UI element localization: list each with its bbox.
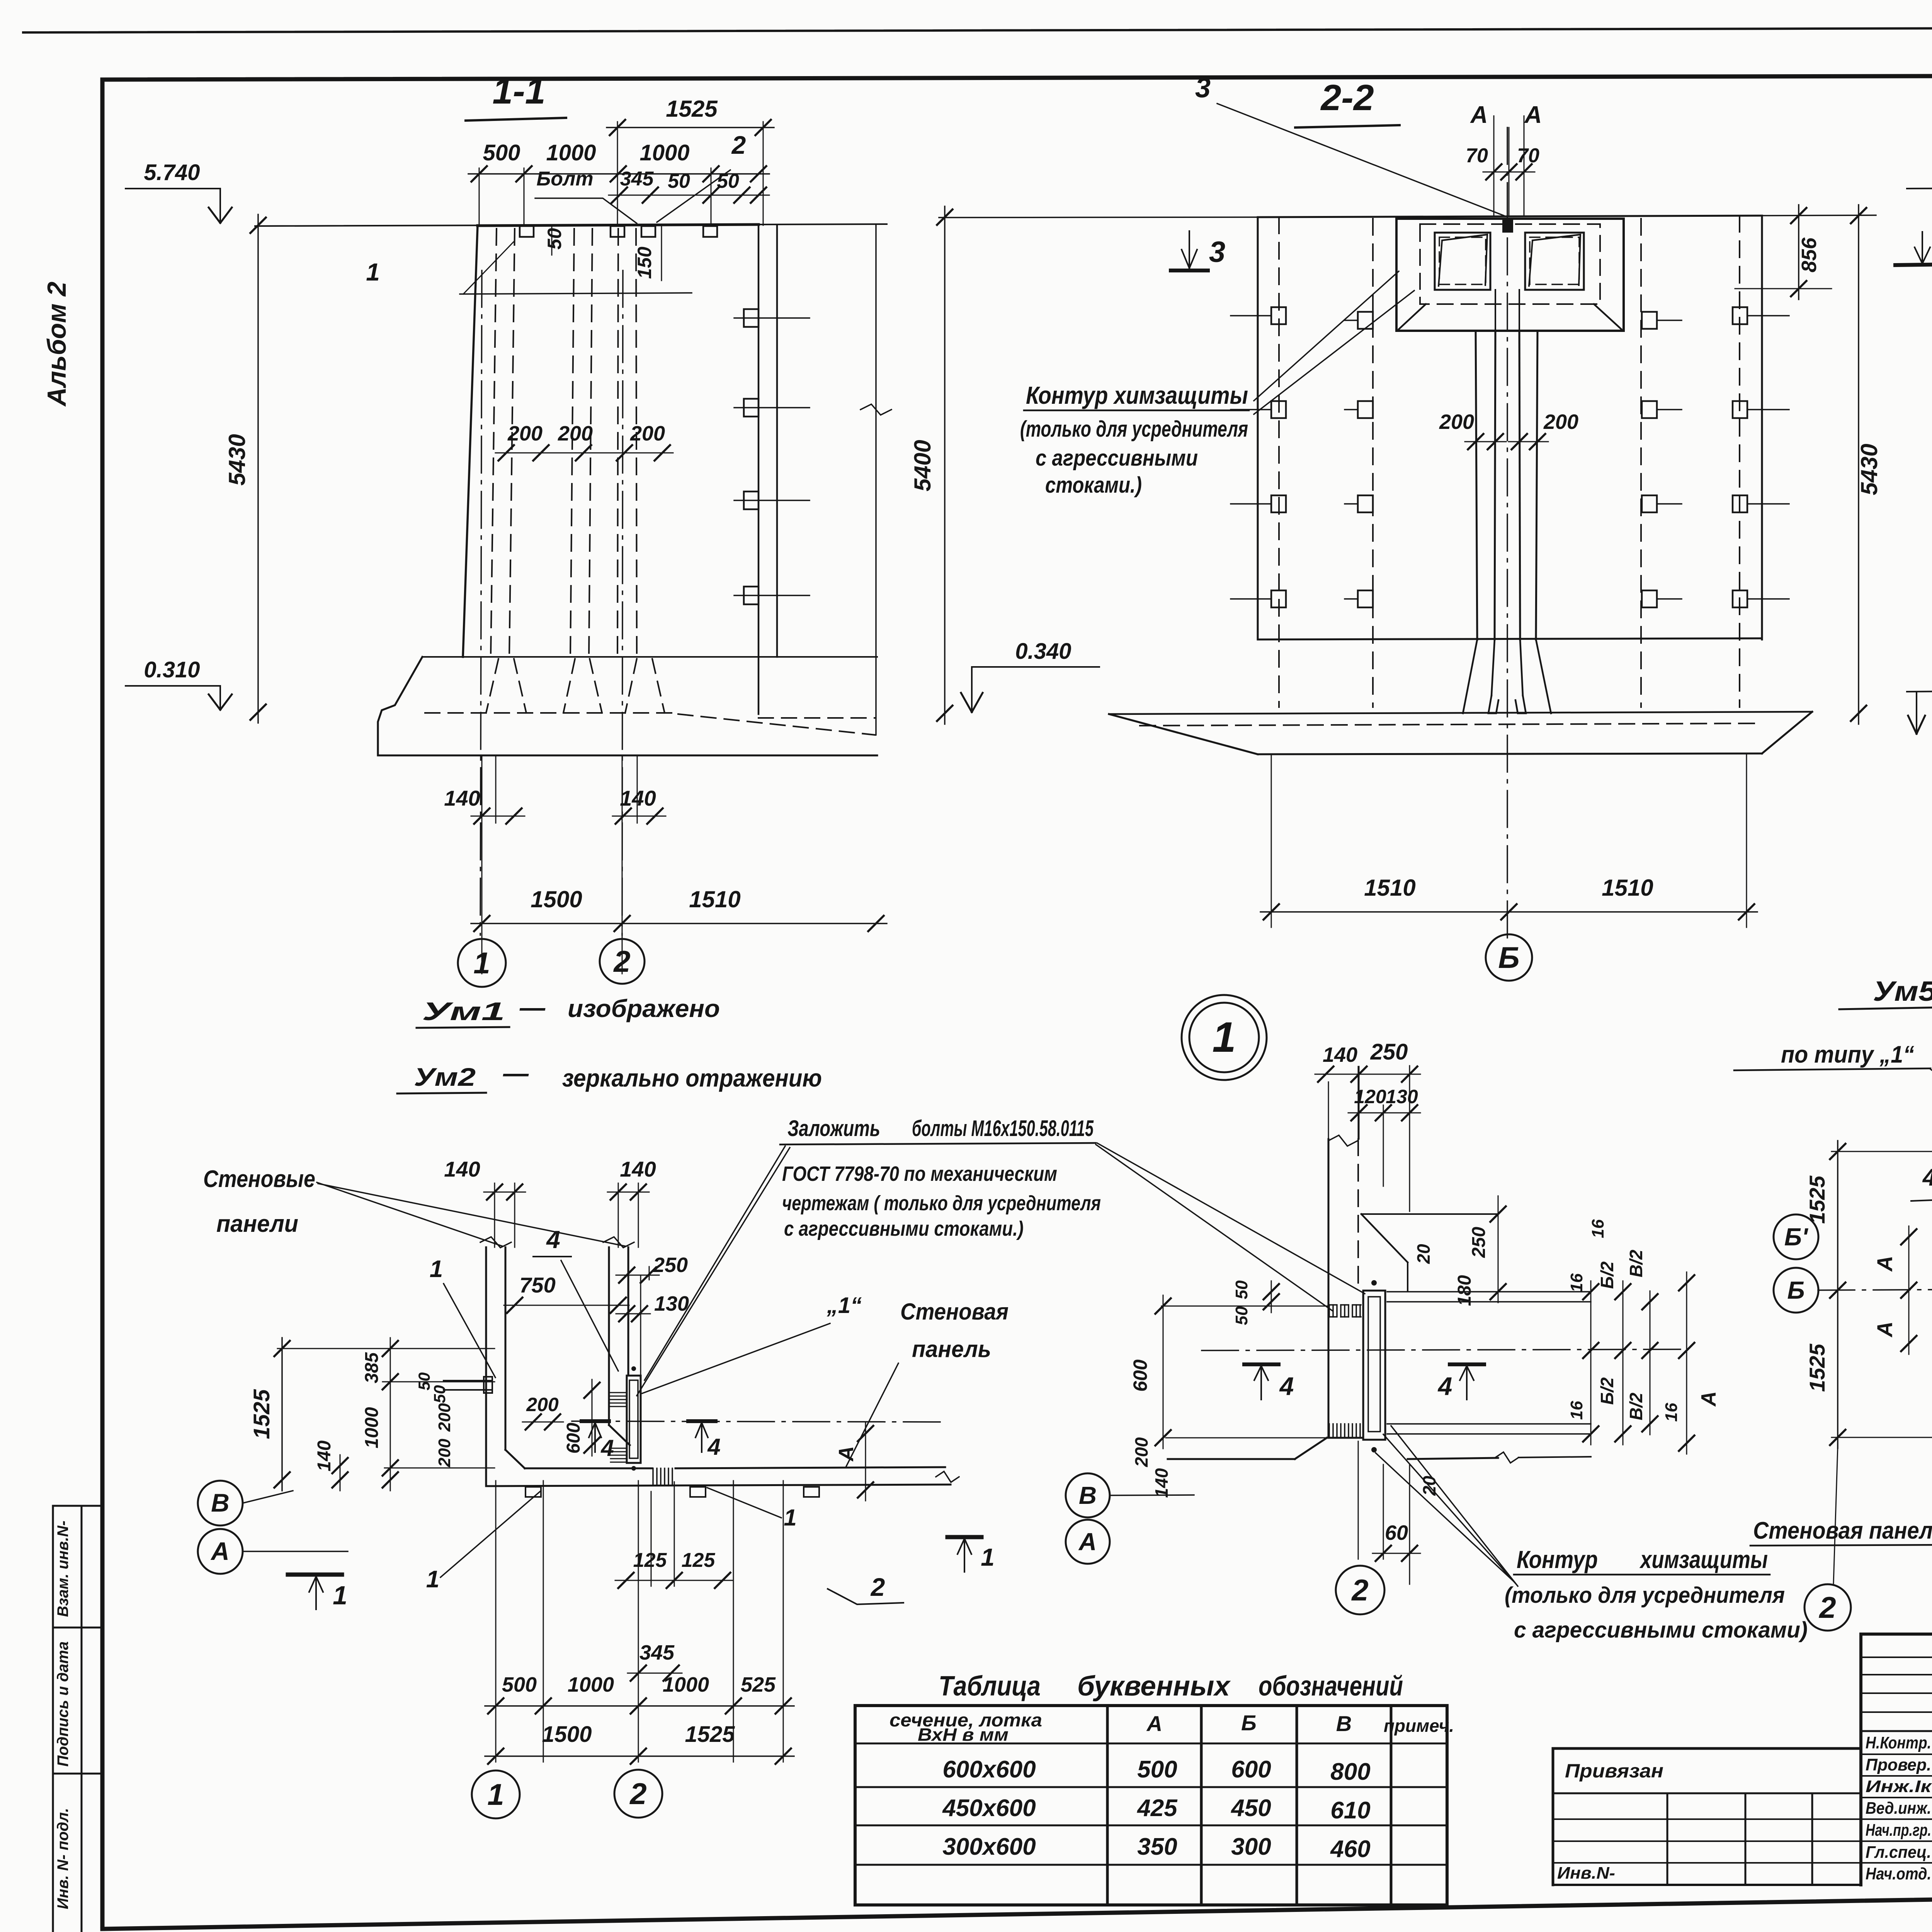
svg-text:Стеновая панель: Стеновая панель — [1753, 1517, 1932, 1544]
svg-text:250: 250 — [653, 1253, 688, 1277]
svg-text:450: 450 — [1230, 1795, 1271, 1821]
svg-text:60: 60 — [1385, 1521, 1408, 1544]
svg-text:4: 4 — [546, 1226, 560, 1253]
svg-text:Инв.N-: Инв.N- — [1557, 1864, 1615, 1883]
svg-text:1: 1 — [1212, 1014, 1236, 1061]
svg-text:140: 140 — [620, 786, 656, 810]
svg-text:300х600: 300х600 — [942, 1833, 1036, 1860]
svg-text:200: 200 — [507, 422, 543, 445]
svg-text:ВхН в мм: ВхН в мм — [918, 1725, 1009, 1745]
svg-text:200: 200 — [526, 1394, 559, 1415]
svg-text:200: 200 — [435, 1403, 454, 1432]
svg-text:50: 50 — [1232, 1280, 1251, 1299]
svg-text:Контур: Контур — [1517, 1546, 1598, 1573]
svg-text:1: 1 — [430, 1256, 443, 1282]
svg-text:Вед.инж.: Вед.инж. — [1866, 1799, 1931, 1818]
svg-text:Ум1: Ум1 — [422, 997, 505, 1026]
svg-text:200: 200 — [1131, 1437, 1151, 1467]
svg-text:стоками.): стоками.) — [1045, 473, 1142, 498]
svg-text:0.340: 0.340 — [1015, 639, 1071, 664]
svg-text:200: 200 — [1543, 410, 1578, 434]
svg-text:по типу „1“: по типу „1“ — [1781, 1041, 1914, 1068]
svg-text:2: 2 — [613, 944, 630, 978]
svg-text:Б': Б' — [1784, 1223, 1808, 1251]
svg-text:1000: 1000 — [639, 140, 689, 165]
svg-text:Б/2: Б/2 — [1597, 1261, 1617, 1289]
svg-text:1500: 1500 — [531, 886, 582, 912]
svg-text:Заложить: Заложить — [787, 1116, 880, 1141]
svg-text:1510: 1510 — [689, 886, 740, 912]
svg-text:2: 2 — [629, 1777, 646, 1811]
svg-text:химзащиты: химзащиты — [1639, 1546, 1768, 1573]
svg-text:1525: 1525 — [666, 96, 718, 122]
svg-text:Ум5: Ум5 — [1873, 976, 1932, 1007]
svg-text:В: В — [1336, 1711, 1352, 1736]
svg-text:140: 140 — [1323, 1043, 1357, 1066]
svg-text:1510: 1510 — [1364, 875, 1415, 901]
svg-text:16: 16 — [1567, 1273, 1586, 1292]
svg-text:с агрессивными стоками): с агрессивными стоками) — [1514, 1617, 1808, 1643]
svg-text:2: 2 — [731, 131, 746, 159]
svg-text:140: 140 — [444, 1157, 480, 1181]
svg-text:В/2: В/2 — [1626, 1250, 1646, 1277]
svg-text:345: 345 — [620, 168, 654, 190]
svg-text:зеркально отражению: зеркально отражению — [562, 1064, 822, 1092]
svg-text:16: 16 — [1662, 1403, 1681, 1422]
svg-text:460: 460 — [1330, 1836, 1370, 1862]
svg-text:Б: Б — [1241, 1711, 1257, 1735]
svg-text:125: 125 — [682, 1549, 716, 1571]
svg-text:345: 345 — [639, 1641, 675, 1664]
svg-text:с агрессивными стоками.): с агрессивными стоками.) — [784, 1217, 1024, 1240]
svg-text:—: — — [519, 993, 546, 1022]
svg-text:1: 1 — [487, 1777, 504, 1811]
svg-text:(только для усреднителя: (только для усреднителя — [1020, 417, 1248, 442]
svg-text:Нач.пр.гр.: Нач.пр.гр. — [1866, 1821, 1931, 1840]
svg-text:1525: 1525 — [1805, 1175, 1829, 1224]
svg-text:250: 250 — [1469, 1227, 1489, 1258]
svg-text:А: А — [1146, 1711, 1162, 1736]
svg-text:2: 2 — [870, 1573, 885, 1601]
svg-text:200: 200 — [558, 422, 593, 445]
svg-text:4: 4 — [1437, 1372, 1452, 1400]
svg-text:1: 1 — [981, 1543, 995, 1571]
svg-text:425: 425 — [1136, 1795, 1178, 1821]
svg-text:600х600: 600х600 — [942, 1756, 1036, 1783]
svg-text:16: 16 — [1588, 1219, 1607, 1238]
svg-text:А: А — [1078, 1528, 1097, 1556]
svg-text:140: 140 — [444, 786, 480, 810]
svg-text:Альбом 2: Альбом 2 — [42, 282, 71, 407]
svg-text:примеч.: примеч. — [1384, 1716, 1454, 1736]
svg-text:болты М16х150.58.0115: болты М16х150.58.0115 — [912, 1116, 1094, 1141]
svg-text:5400: 5400 — [910, 440, 935, 491]
svg-text:200: 200 — [630, 422, 665, 445]
svg-text:Гл.спец.: Гл.спец. — [1866, 1843, 1931, 1862]
svg-text:3: 3 — [1195, 73, 1211, 104]
svg-text:50: 50 — [668, 170, 690, 192]
svg-text:Контур химзащиты: Контур химзащиты — [1026, 381, 1248, 409]
svg-text:2-2: 2-2 — [1320, 77, 1374, 118]
svg-text:Инв. N- подл.: Инв. N- подл. — [54, 1808, 71, 1909]
svg-text:50: 50 — [717, 170, 739, 192]
svg-text:1000: 1000 — [663, 1673, 709, 1696]
svg-text:А: А — [210, 1537, 230, 1565]
svg-text:буквенных: буквенных — [1077, 1671, 1231, 1702]
svg-text:чертежам ( только для усреднит: чертежам ( только для усреднителя — [782, 1192, 1101, 1215]
svg-text:3: 3 — [1209, 236, 1225, 269]
svg-text:В: В — [1079, 1481, 1097, 1509]
svg-text:1000: 1000 — [546, 140, 596, 165]
svg-text:140: 140 — [314, 1440, 335, 1471]
svg-text:450х600: 450х600 — [942, 1795, 1036, 1821]
svg-text:обозначений: обозначений — [1259, 1671, 1403, 1702]
svg-text:1: 1 — [366, 258, 380, 286]
svg-text:1510: 1510 — [1602, 875, 1653, 901]
svg-text:5.740: 5.740 — [144, 160, 200, 185]
svg-text:1: 1 — [426, 1566, 439, 1593]
svg-text:Б/2: Б/2 — [1597, 1377, 1617, 1405]
svg-text:500: 500 — [1137, 1756, 1177, 1783]
svg-text:500: 500 — [483, 140, 520, 165]
svg-text:1525: 1525 — [1805, 1344, 1829, 1392]
svg-text:20: 20 — [1413, 1244, 1434, 1264]
svg-text:Стеновые: Стеновые — [203, 1166, 315, 1192]
svg-text:385: 385 — [362, 1352, 382, 1383]
svg-text:70: 70 — [1466, 145, 1488, 167]
svg-text:В/2: В/2 — [1626, 1393, 1646, 1420]
svg-text:2: 2 — [1818, 1590, 1836, 1624]
svg-text:2: 2 — [1351, 1573, 1368, 1607]
svg-text:50: 50 — [544, 228, 565, 250]
svg-text:Болт: Болт — [536, 168, 593, 190]
svg-text:1500: 1500 — [542, 1722, 592, 1747]
svg-text:А: А — [835, 1446, 858, 1462]
svg-text:50: 50 — [1232, 1306, 1251, 1325]
svg-text:130: 130 — [1386, 1086, 1418, 1107]
svg-text:350: 350 — [1137, 1833, 1177, 1860]
svg-text:750: 750 — [519, 1273, 555, 1297]
svg-text:—: — — [503, 1059, 529, 1087]
svg-text:600: 600 — [563, 1423, 584, 1454]
svg-text:Подпись и дата: Подпись и дата — [54, 1641, 71, 1767]
svg-text:300: 300 — [1231, 1833, 1271, 1860]
svg-text:600: 600 — [1231, 1756, 1271, 1783]
svg-text:4: 4 — [1279, 1372, 1294, 1400]
svg-text:525: 525 — [741, 1673, 776, 1696]
svg-text:1000: 1000 — [362, 1407, 382, 1448]
svg-text:610: 610 — [1330, 1797, 1370, 1824]
svg-text:1000: 1000 — [568, 1673, 614, 1696]
svg-text:250: 250 — [1370, 1039, 1408, 1065]
svg-text:Б: Б — [1787, 1276, 1804, 1304]
svg-text:5430: 5430 — [224, 434, 250, 485]
svg-text:180: 180 — [1454, 1275, 1475, 1306]
svg-text:А: А — [1697, 1391, 1720, 1407]
svg-text:А: А — [1872, 1256, 1897, 1272]
svg-text:4: 4 — [707, 1434, 720, 1460]
svg-text:0.310: 0.310 — [144, 657, 200, 682]
svg-text:А: А — [1524, 102, 1542, 128]
svg-text:панель: панель — [912, 1336, 991, 1362]
svg-text:800: 800 — [1330, 1759, 1370, 1785]
svg-text:130: 130 — [654, 1292, 689, 1315]
svg-text:(только для усреднителя: (только для усреднителя — [1505, 1583, 1785, 1608]
svg-text:Ум2: Ум2 — [414, 1063, 476, 1091]
svg-text:1: 1 — [784, 1505, 796, 1531]
svg-text:1525: 1525 — [685, 1722, 735, 1747]
svg-text:„1“: „1“ — [827, 1293, 862, 1318]
svg-text:В: В — [211, 1488, 230, 1517]
svg-text:панели: панели — [216, 1211, 298, 1237]
svg-text:500: 500 — [502, 1673, 537, 1696]
svg-text:600: 600 — [1129, 1359, 1151, 1392]
svg-text:изображено: изображено — [568, 995, 720, 1022]
svg-text:140: 140 — [1151, 1468, 1172, 1498]
svg-text:Нач.отд.: Нач.отд. — [1866, 1864, 1931, 1883]
svg-text:16: 16 — [1567, 1401, 1586, 1420]
svg-text:200: 200 — [435, 1439, 454, 1468]
svg-text:А: А — [1872, 1321, 1897, 1338]
svg-text:50: 50 — [430, 1385, 449, 1403]
svg-text:70: 70 — [1517, 145, 1539, 167]
svg-text:Инж.Iк: Инж.Iк — [1866, 1777, 1932, 1796]
svg-text:856: 856 — [1798, 237, 1821, 272]
svg-text:150: 150 — [634, 247, 655, 279]
svg-text:с агрессивными: с агрессивными — [1036, 446, 1198, 471]
svg-text:ГОСТ 7798-70 по механическим: ГОСТ 7798-70 по механическим — [782, 1162, 1057, 1185]
svg-text:1525: 1525 — [249, 1389, 274, 1439]
svg-text:Провер.: Провер. — [1866, 1755, 1931, 1774]
svg-text:140: 140 — [620, 1157, 656, 1181]
svg-text:200: 200 — [1439, 410, 1474, 434]
svg-text:А: А — [1470, 102, 1488, 128]
svg-text:4: 4 — [1922, 1164, 1932, 1191]
svg-text:4: 4 — [600, 1435, 614, 1461]
svg-text:Н.Контр.: Н.Контр. — [1866, 1733, 1931, 1752]
svg-text:Б: Б — [1498, 940, 1519, 975]
svg-text:Таблица: Таблица — [939, 1671, 1041, 1702]
svg-text:1: 1 — [333, 1581, 347, 1610]
svg-text:Взам. инв.N-: Взам. инв.N- — [54, 1520, 71, 1617]
svg-text:1-1: 1-1 — [492, 71, 545, 112]
svg-text:Стеновая: Стеновая — [900, 1299, 1009, 1325]
svg-text:5430: 5430 — [1856, 444, 1882, 495]
svg-text:Привязан: Привязан — [1565, 1760, 1663, 1782]
svg-text:1: 1 — [473, 946, 490, 980]
